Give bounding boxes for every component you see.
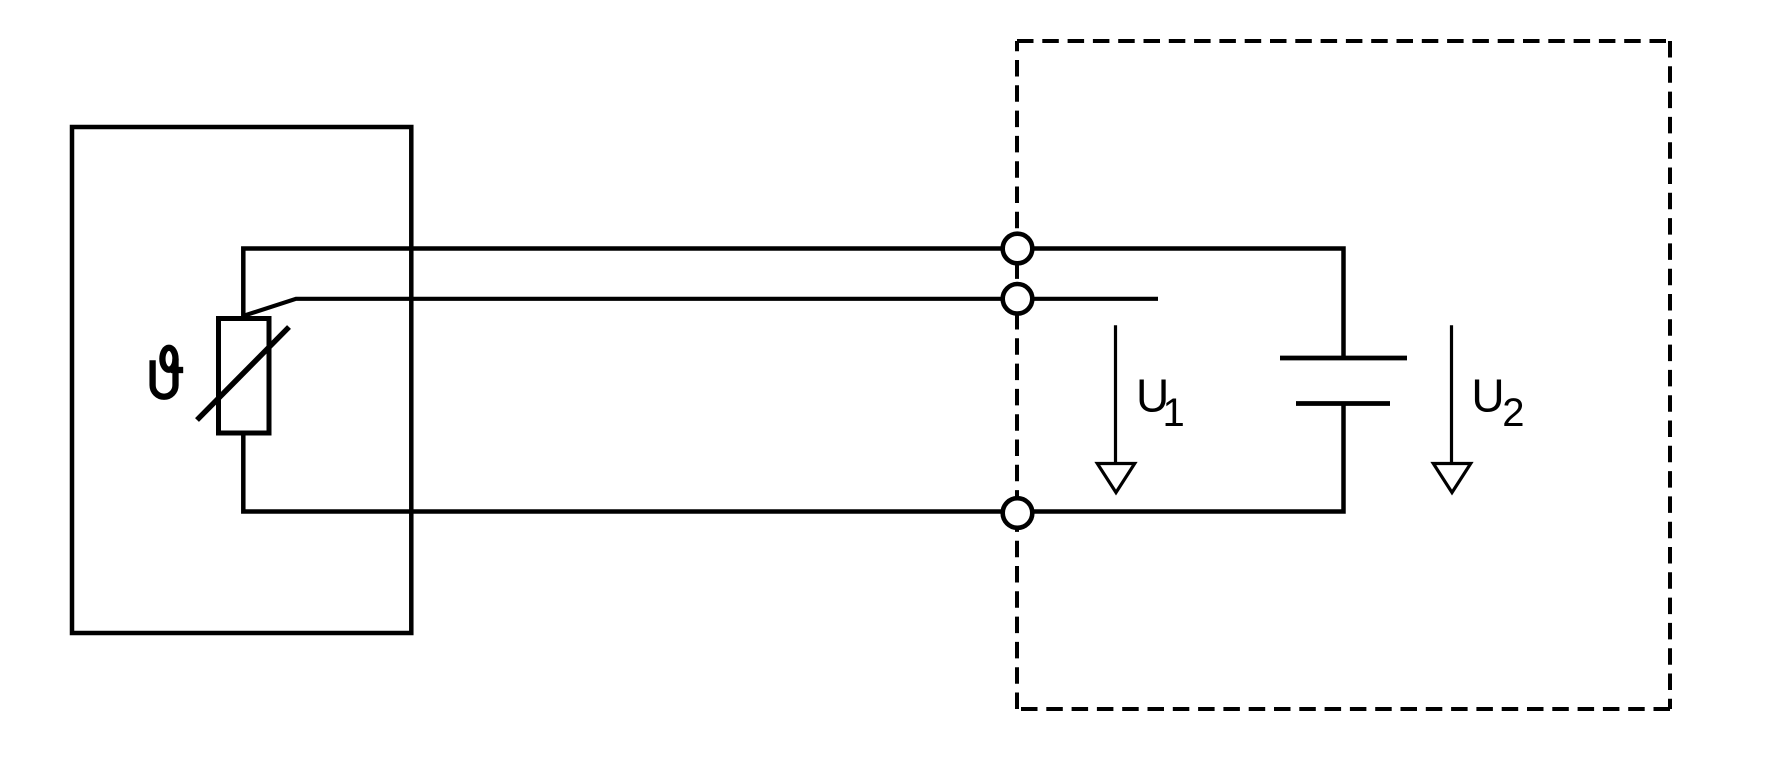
capacitor C [1280,358,1407,404]
voltage arrow U2 [1433,325,1470,492]
wire: line 2, sense lead from thermistor top terminal [245,299,1159,316]
wire: line 3, thermistor bottom terminal to capacitor bottom [243,404,1343,512]
svg-text:U: U [1471,370,1504,422]
voltage arrow U1 [1097,325,1134,492]
transmitter enclosure (dashed box) [1017,41,1670,709]
terminal 1 [1003,234,1033,264]
terminal 2 [1003,284,1033,314]
wire: line 1, thermistor top terminal to capacitor top [243,249,1343,359]
sensor enclosure box [72,127,411,633]
thermistor RT (temperature-dependent resistor) [197,319,289,434]
svg-text:1: 1 [1163,391,1185,435]
svg-text:2: 2 [1502,391,1524,435]
terminal 3 [1003,498,1033,528]
label theta (temperature) [153,348,184,397]
